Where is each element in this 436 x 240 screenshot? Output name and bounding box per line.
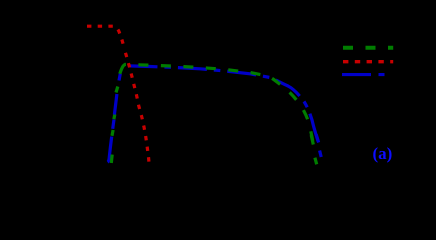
rise: green side dash (bottom) <box>110 155 114 163</box>
legend green dashed sample <box>343 46 393 50</box>
legend blue dash-dot sample <box>342 73 386 76</box>
rise: green dash at 86-93 <box>116 87 118 93</box>
green dashed curve: descent dash extension <box>311 135 313 145</box>
rise: green dash at 130-136 <box>112 130 113 136</box>
green dashed curve <box>125 64 314 146</box>
rise: green dash at 114-119 <box>112 114 116 119</box>
blue dash-dot curve: final tail dot <box>320 151 322 158</box>
green bend dash into flat <box>120 64 126 73</box>
blue dash-dot curve <box>122 66 319 143</box>
rise: blue dot at 119-129 <box>113 120 114 129</box>
red dotted curve: steep descending part (drawn over curves) <box>125 50 150 164</box>
red dotted curve: top horizontal part and knee <box>87 26 124 47</box>
rise: blue long dash with bottom hook <box>108 137 112 163</box>
svg-text:(a): (a) <box>373 144 393 163</box>
green dashed curve: final tail dash <box>315 158 317 165</box>
rise: blue dash at top <box>119 74 120 81</box>
legend red dotted sample <box>343 60 393 63</box>
rise: blue long dash at 94-115 <box>114 94 117 115</box>
blue dash-dot curve: descent dash extension <box>316 135 318 143</box>
